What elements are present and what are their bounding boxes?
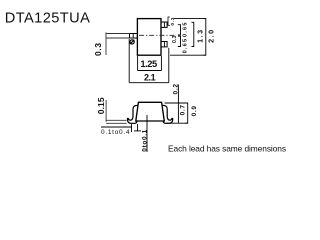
package body (side view) <box>136 102 165 121</box>
svg-text:DTA125TUA: DTA125TUA <box>5 11 90 27</box>
svg-text:0.7: 0.7 <box>179 105 186 116</box>
svg-text:2.0: 2.0 <box>207 30 216 43</box>
label 0.3 top-right lead <box>168 17 170 25</box>
centerline <box>139 34 174 36</box>
dimension 1.3 bracket <box>192 22 194 46</box>
dimension 0.9 bracket <box>185 103 188 123</box>
extension line body top (side view) <box>165 102 188 104</box>
svg-text:2.1: 2.1 <box>144 73 156 83</box>
svg-text:0.1to0.4: 0.1to0.4 <box>101 129 130 136</box>
dimension 0.15 (lead thickness) <box>106 100 127 123</box>
lead 2 (top-right, top view) <box>161 22 167 27</box>
standoff leader <box>146 115 148 152</box>
dimension 2.0 extension top <box>174 18 206 20</box>
dimension 0.65 lower bracket <box>178 36 181 46</box>
right lead (side view gull-wing) <box>163 105 173 123</box>
lead 3 (bottom-right, top view) <box>161 42 167 47</box>
lead 1 index mark (circle-slash) <box>130 40 134 44</box>
svg-text:0to0.1: 0to0.1 <box>141 129 148 151</box>
dimension 0.1to0.4 (foot length) <box>101 124 141 132</box>
dimension 1.25 <box>138 56 162 71</box>
svg-text:0.15: 0.15 <box>96 97 106 114</box>
dimension 2.0 bracket <box>203 19 206 56</box>
lead 3 bend line <box>163 42 165 47</box>
dimension 0.65 upper bracket <box>178 25 181 35</box>
dimension 2.0 extension bottom <box>170 54 206 56</box>
svg-text:0.65: 0.65 <box>182 39 188 54</box>
left lead (side view gull-wing) <box>127 105 137 123</box>
dimension 2.1 <box>129 39 169 83</box>
package body (top view) <box>137 19 161 56</box>
lead 1 (left, top view) <box>130 34 138 39</box>
lead 2 bend line <box>163 22 165 27</box>
svg-text:1.3: 1.3 <box>195 30 204 43</box>
dimension 0.3 (left lead width) <box>106 32 129 55</box>
svg-text:0.2: 0.2 <box>173 84 180 95</box>
lead 1 bend line <box>132 34 134 39</box>
svg-text:0.3: 0.3 <box>172 35 178 43</box>
svg-text:0.9: 0.9 <box>191 106 198 117</box>
svg-text:0.65: 0.65 <box>182 23 188 38</box>
svg-text:Each lead has same dimensions: Each lead has same dimensions <box>168 143 286 153</box>
svg-text:1.25: 1.25 <box>140 59 157 69</box>
dimension line 0.2 / 0.7 <box>177 85 179 124</box>
svg-text:0.3: 0.3 <box>93 43 103 56</box>
seating plane extension <box>166 122 188 124</box>
